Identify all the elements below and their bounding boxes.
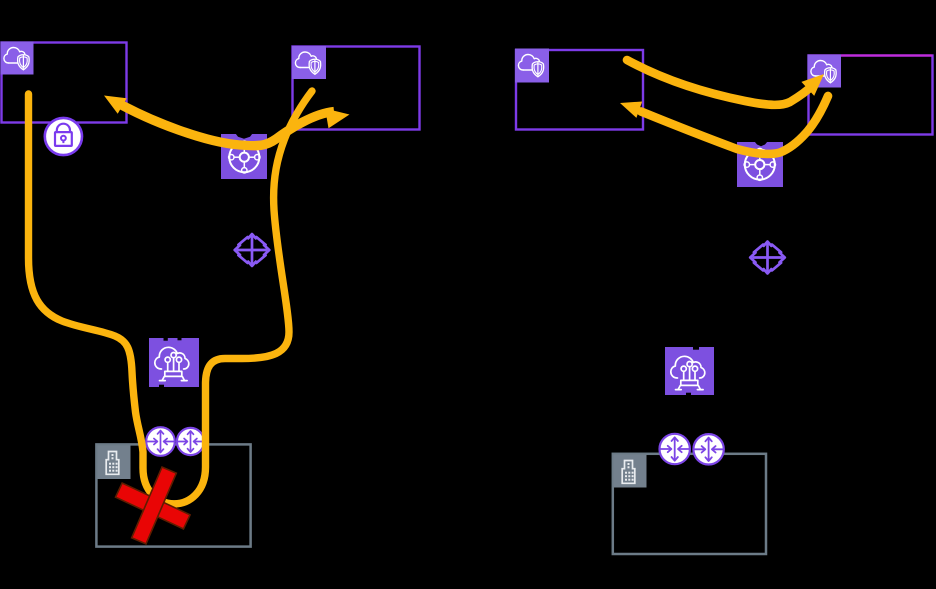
black notch at top of TGW left <box>236 134 253 139</box>
transit gateway left <box>221 134 267 180</box>
flow hairpin path (VPC2 to on-prem to VPC1) <box>29 91 313 504</box>
flow arc left (VPC1 <-> VPC2 over TGW) <box>117 103 334 146</box>
router left 1 <box>146 427 175 456</box>
VPC box 3 (top-right-left) <box>516 50 643 130</box>
VPC box 4 (top-far-right) <box>809 56 933 135</box>
flow arc right upper (VPC3 to VPC4) <box>627 60 813 105</box>
router left 2 <box>177 428 204 455</box>
VPC box 4 magenta top edge <box>808 54 933 56</box>
arrowhead into VPC box 4 <box>801 74 824 96</box>
black notches on DX left <box>164 338 168 341</box>
VPC box 2 corner icon <box>292 46 326 79</box>
VPC box 1 (top-left) <box>2 43 127 123</box>
arrowhead into VPC box 1 <box>104 96 127 114</box>
arrowhead into VPC box 3 <box>620 102 642 118</box>
lock icon <box>45 118 82 155</box>
flow arc right lower (VPC4 to VPC3 over TGW) <box>641 96 828 154</box>
VPC box 3 corner icon <box>515 49 549 83</box>
data center corner icon right <box>614 455 647 488</box>
VPC box 1 corner icon <box>1 42 34 75</box>
arrowhead into VPC box 2 <box>325 109 349 129</box>
transit gateway right <box>737 142 783 188</box>
VPC box 2 (top-middle-left) <box>293 47 420 130</box>
direct connect gateway left <box>149 338 199 388</box>
direct connect gateway right <box>665 347 714 396</box>
VPC box 4 corner icon <box>808 55 842 88</box>
data center box right <box>613 454 766 554</box>
black notch at top of TGW right <box>755 142 768 147</box>
router right 2 <box>693 434 723 464</box>
router right 1 <box>660 434 690 464</box>
route diamond left <box>235 234 270 266</box>
data center corner icon left <box>98 446 131 480</box>
route diamond right <box>750 242 785 274</box>
data center box left <box>96 444 250 546</box>
red X cross <box>116 467 191 544</box>
black notches on DX right <box>693 347 699 350</box>
